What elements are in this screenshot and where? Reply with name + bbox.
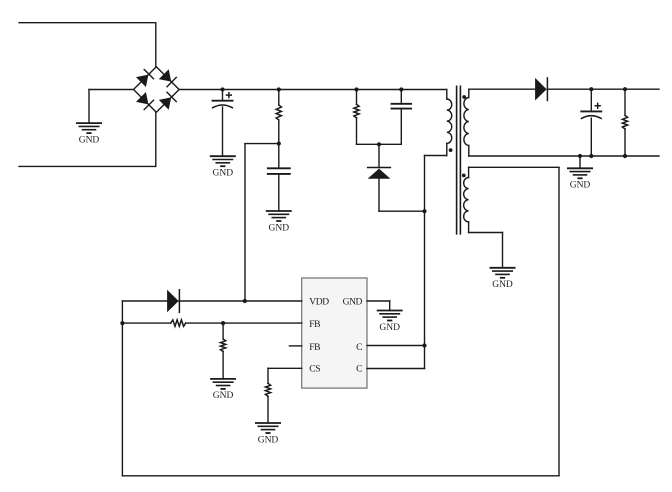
wire xyxy=(400,90,402,104)
junction rail / snubber C xyxy=(399,87,403,91)
transformer core xyxy=(457,86,461,234)
svg-text:GND: GND xyxy=(269,223,290,233)
wire aux to diode xyxy=(122,300,167,302)
junction FB divider node xyxy=(221,321,225,325)
wire primary bottom lead xyxy=(425,155,447,157)
wire xyxy=(222,323,224,339)
wire to FB pin xyxy=(186,322,302,324)
svg-text:GND: GND xyxy=(570,181,591,191)
svg-text:C: C xyxy=(356,365,362,375)
svg-text:FB: FB xyxy=(309,343,320,353)
wire xyxy=(446,143,448,155)
junction FB tap xyxy=(120,321,124,325)
wire xyxy=(378,179,380,212)
capacitor bulk input (polarized) xyxy=(213,93,233,108)
wire xyxy=(590,89,592,111)
wire xyxy=(278,174,280,211)
resistor snubber xyxy=(354,104,359,118)
svg-text:FB: FB xyxy=(309,320,320,330)
wire drain vertical xyxy=(424,156,426,369)
junction rail / startup resistor xyxy=(277,87,281,91)
junction rail / snubber R xyxy=(354,87,358,91)
svg-text:GND: GND xyxy=(492,280,513,290)
ground aux GND xyxy=(490,268,514,290)
wire xyxy=(356,90,358,105)
wire output return xyxy=(469,155,659,157)
wire xyxy=(267,368,269,383)
resistor FB divider xyxy=(221,339,226,352)
capacitor output filter (polarized) xyxy=(581,103,601,118)
svg-text:GND: GND xyxy=(213,169,234,179)
junction VDD node xyxy=(243,299,247,303)
wire xyxy=(468,222,470,233)
secondary phase dot xyxy=(462,95,466,99)
wire xyxy=(378,144,380,167)
svg-text:C: C xyxy=(356,343,362,353)
wire AC line top xyxy=(19,22,156,24)
svg-text:GND: GND xyxy=(79,135,100,145)
wire xyxy=(356,118,358,145)
capacitor VDD filter xyxy=(268,168,290,174)
bridge rectifier diamond xyxy=(134,67,180,113)
wire xyxy=(389,301,391,311)
svg-text:GND: GND xyxy=(379,323,400,333)
primary phase dot xyxy=(449,148,453,152)
transformer auxiliary winding xyxy=(464,167,469,232)
wire CS pin xyxy=(268,367,302,369)
wire xyxy=(468,146,470,157)
wire snubber bottom xyxy=(357,143,402,145)
wire left feedback vertical xyxy=(121,301,123,476)
junction drain / C pin xyxy=(422,343,426,347)
wire AC bottom to bridge xyxy=(155,112,157,166)
wire xyxy=(222,352,224,379)
svg-text:VDD: VDD xyxy=(309,298,329,308)
resistor startup xyxy=(276,105,281,120)
wire xyxy=(624,129,626,156)
svg-text:GND: GND xyxy=(258,435,279,445)
bridge diode bottom-right xyxy=(159,92,177,110)
wire xyxy=(122,322,170,324)
ground CS GND xyxy=(256,423,280,445)
junction startup node xyxy=(277,142,281,146)
wire xyxy=(222,90,224,101)
transformer secondary winding xyxy=(464,89,469,156)
junction out rail / cap xyxy=(589,87,593,91)
wire down to VDD node xyxy=(244,144,246,301)
wire AC top to bridge xyxy=(155,23,157,67)
wire xyxy=(278,144,280,169)
wire xyxy=(267,396,269,423)
wire xyxy=(468,167,470,177)
ground IC GND xyxy=(378,311,402,333)
wire aux top lead xyxy=(469,166,559,168)
bridge diode top-left xyxy=(136,70,154,88)
wire xyxy=(400,109,402,145)
secondary bumps xyxy=(464,98,469,146)
wire GND pin xyxy=(367,300,390,302)
wire FB2 stub xyxy=(289,345,301,347)
primary bumps xyxy=(447,99,452,143)
aux bumps xyxy=(464,178,469,222)
ground output GND xyxy=(568,168,592,190)
diode VDD diode xyxy=(167,290,179,313)
wire clamp to drain xyxy=(379,210,425,212)
wire xyxy=(278,90,280,106)
capacitor snubber xyxy=(392,104,412,109)
svg-text:GND: GND xyxy=(213,391,234,401)
aux phase dot xyxy=(462,174,466,178)
junction drain node xyxy=(422,209,426,213)
junction out rail / load xyxy=(623,87,627,91)
ground bulk cap GND xyxy=(211,156,235,178)
wire to ground xyxy=(88,90,90,124)
wire xyxy=(624,89,626,115)
resistor FB series xyxy=(171,320,186,326)
wire bridge negative xyxy=(89,89,134,91)
junction out return / load xyxy=(623,154,627,158)
diode output rectifier xyxy=(535,78,547,101)
junction out return / cap xyxy=(589,154,593,158)
wire xyxy=(502,233,504,268)
ground VDD cap GND xyxy=(267,211,291,233)
wire xyxy=(468,89,470,97)
wire C2 pin xyxy=(367,368,425,370)
wire xyxy=(278,120,280,144)
wire bottom feedback rail xyxy=(122,475,559,477)
wire right feedback vertical xyxy=(558,167,560,476)
junction rail / bulk cap xyxy=(220,87,224,91)
wire xyxy=(446,90,448,100)
wire aux bottom xyxy=(469,232,503,234)
ground input GND xyxy=(77,123,101,145)
resistor CS xyxy=(265,383,270,396)
transformer primary winding xyxy=(447,90,452,156)
wire C pin xyxy=(367,345,425,347)
wire xyxy=(222,107,224,156)
wire secondary top xyxy=(469,88,535,90)
wire diode to VDD pin xyxy=(179,300,302,302)
wire xyxy=(579,156,581,168)
wire xyxy=(590,118,592,156)
svg-text:GND: GND xyxy=(343,298,363,308)
op IC controller U1 xyxy=(302,278,367,388)
junction out return / gnd xyxy=(578,154,582,158)
wire output rail+ xyxy=(547,88,659,90)
wire startup to VDD drop xyxy=(245,143,279,145)
svg-text:CS: CS xyxy=(309,365,320,375)
resistor load xyxy=(622,115,627,128)
wire AC line bottom xyxy=(19,165,156,167)
bridge diode bottom-left xyxy=(136,92,154,110)
ground FB GND xyxy=(211,379,235,401)
wire main DC rail xyxy=(179,89,447,91)
bridge diode top-right xyxy=(159,69,177,87)
diode clamp (cathode up) xyxy=(368,168,391,179)
junction snubber mid xyxy=(377,142,381,146)
